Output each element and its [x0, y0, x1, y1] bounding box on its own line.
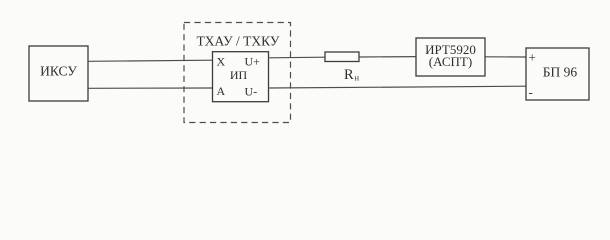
svg-text:U-: U- [245, 84, 258, 98]
block U2 ИП transmitter [213, 52, 269, 102]
svg-text:X: X [217, 55, 226, 69]
svg-text:(АСПТ): (АСПТ) [429, 54, 472, 69]
svg-text:+: + [529, 50, 536, 65]
svg-text:-: - [529, 85, 533, 100]
svg-text:ТХАУ / ТХКУ: ТХАУ / ТХКУ [197, 34, 280, 49]
block U1 ИКСУ [29, 46, 88, 101]
label Rн [344, 67, 360, 83]
svg-text:R: R [344, 67, 354, 83]
wire ИРТ5920 to БП96 [485, 56, 526, 58]
wire resistor to ИРТ5920 [359, 56, 416, 58]
svg-text:U+: U+ [245, 55, 261, 69]
svg-text:A: A [217, 84, 226, 98]
wire ИКСУ to ИП top [88, 60, 213, 61]
block U3 ИРТ5920 (АСПТ) [416, 38, 485, 76]
block U4 БП 96 power supply [526, 48, 589, 100]
wire ИП U- to БП96 minus [269, 86, 527, 88]
svg-text:ИП: ИП [230, 68, 248, 82]
svg-text:ИКСУ: ИКСУ [40, 64, 77, 79]
wire ИКСУ to ИП bottom [88, 87, 213, 89]
dashed boundary ТХАУ/ТХКУ enclosure [184, 23, 291, 123]
resistor Rн [325, 52, 359, 62]
wire ИП U+ to resistor [269, 56, 326, 59]
svg-text:БП 96: БП 96 [543, 64, 578, 79]
svg-text:н: н [355, 73, 360, 83]
